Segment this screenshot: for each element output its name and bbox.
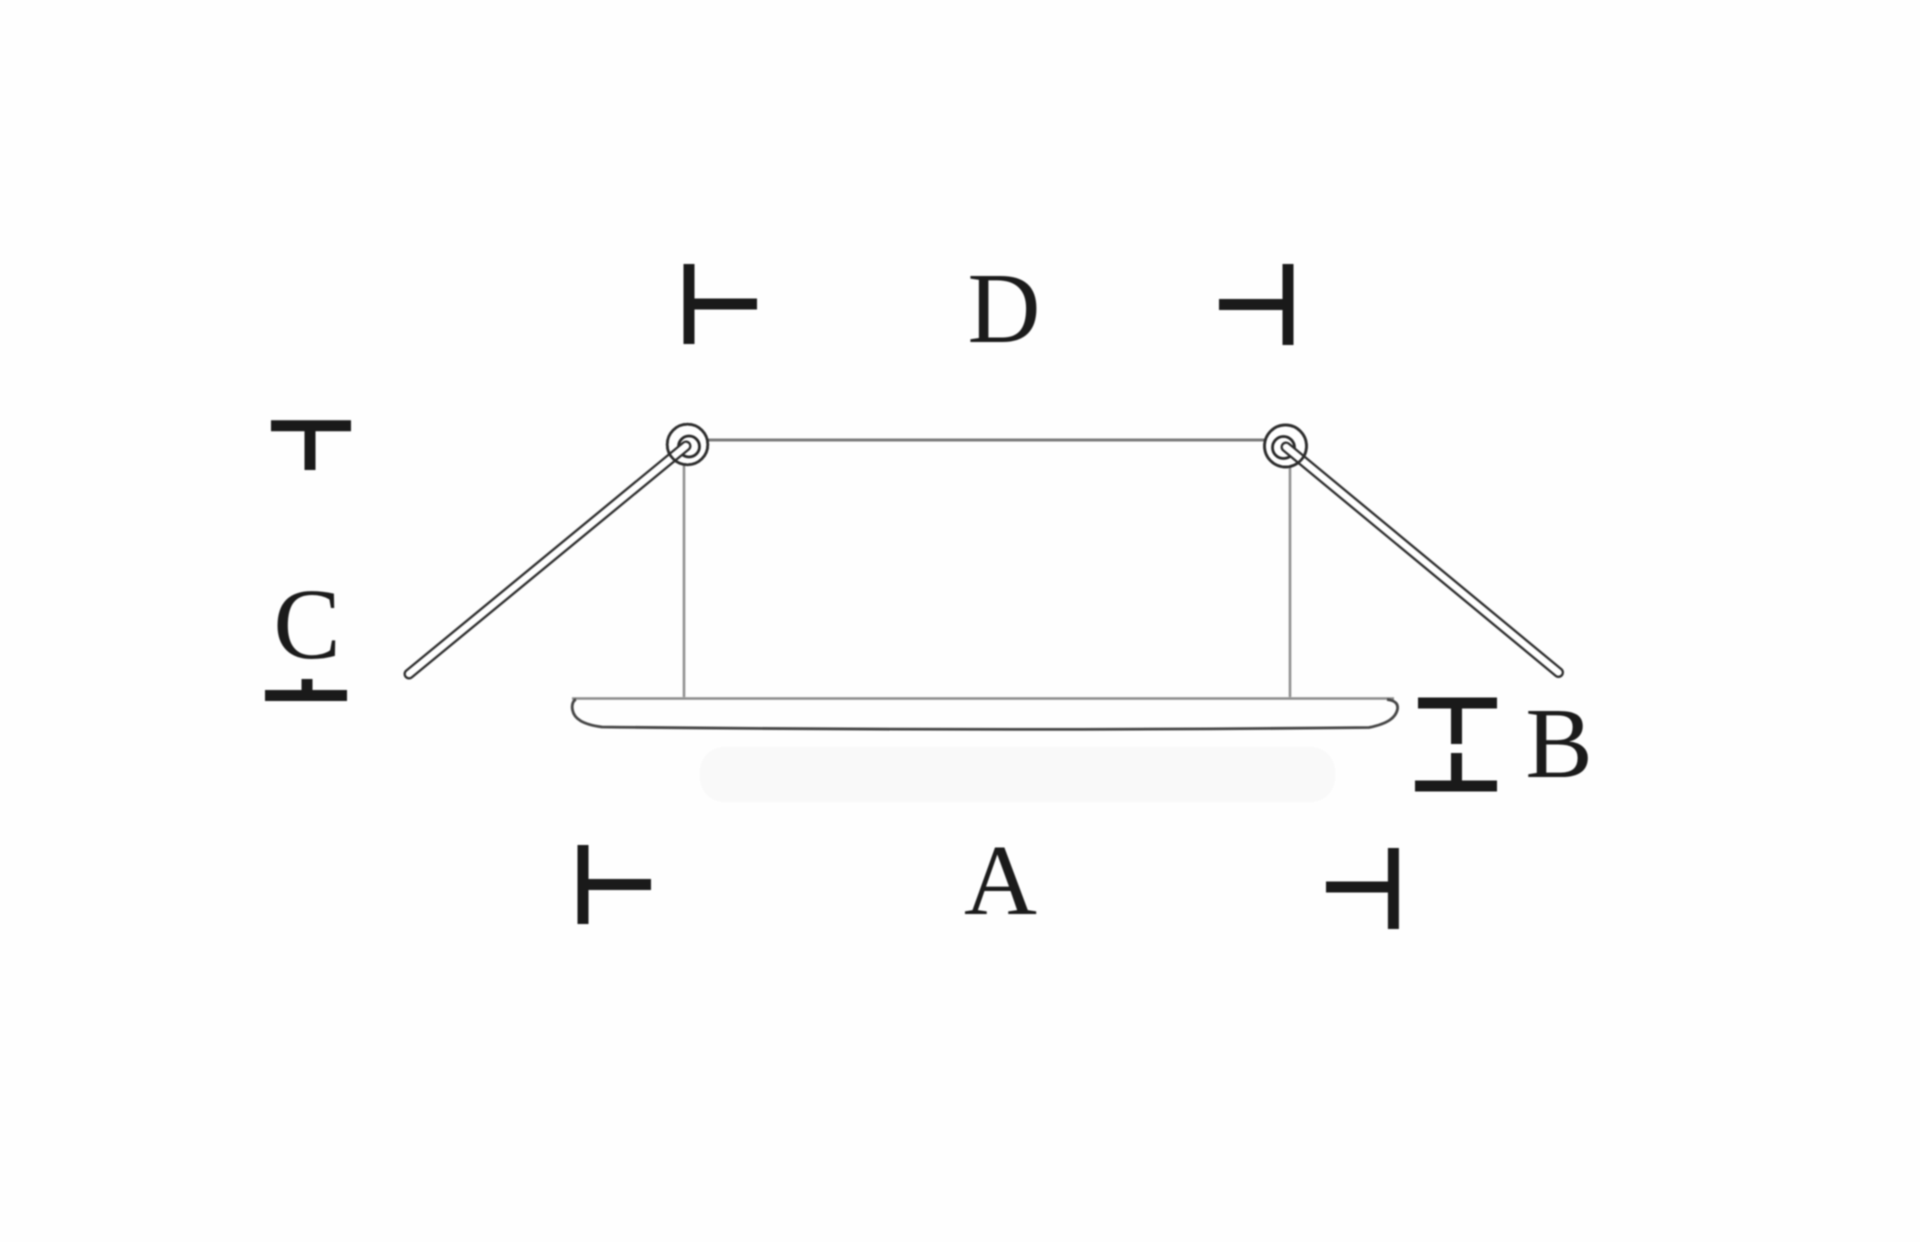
dimension tick C-bottom <box>265 679 347 696</box>
wire: left hanger vertical <box>683 458 686 697</box>
spring clip arm left <box>409 446 686 674</box>
dimension tick B-top <box>1418 703 1497 744</box>
dimension tick D-right <box>1219 264 1288 345</box>
spring clip arm right <box>1286 447 1559 673</box>
pivot circle left (outer, white fill) <box>667 424 708 465</box>
spring coil loop left <box>679 436 700 457</box>
wire: right hanger vertical <box>1289 460 1292 697</box>
trim plate body outline <box>572 700 1397 730</box>
dimension tick C-top <box>271 426 351 470</box>
dimension tick B-bottom <box>1415 753 1497 786</box>
svg-text:A: A <box>964 824 1037 936</box>
pivot circle left rim overlay <box>667 424 708 465</box>
trim plate top edge <box>572 697 1394 700</box>
svg-text:C: C <box>273 568 340 680</box>
pivot circle right (outer, white fill) <box>1265 425 1307 467</box>
dimension tick D-left <box>689 264 757 344</box>
dimension tick A-left <box>583 845 651 924</box>
wire: top bar between pivots <box>689 439 1286 442</box>
dimension tick A-right <box>1326 848 1393 929</box>
svg-text:D: D <box>968 252 1041 364</box>
shadow under trim plate <box>700 747 1335 802</box>
spring coil loop right <box>1273 437 1295 459</box>
svg-text:B: B <box>1525 687 1592 799</box>
pivot circle right rim overlay <box>1265 425 1307 467</box>
